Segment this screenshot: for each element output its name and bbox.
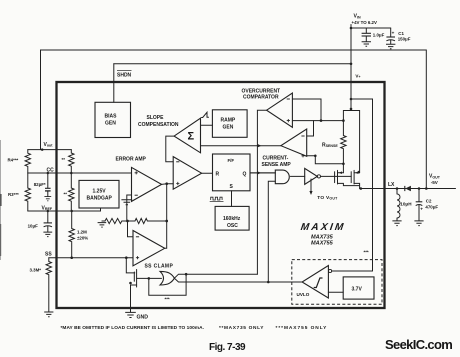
node VIN top: [350, 27, 353, 30]
resistor RSENSE: [322, 111, 346, 173]
svg-text:10μH: 10μH: [400, 201, 412, 206]
svg-text:Q: Q: [243, 171, 247, 177]
label CC: [47, 167, 55, 173]
node OR gate input: [148, 277, 151, 280]
wire LX internal: [360, 188, 397, 190]
wire LX rail outside: [385, 188, 456, 190]
label *** under loop: [165, 297, 170, 302]
resistor R4: [8, 150, 31, 173]
svg-text:MAXIM: MAXIM: [300, 222, 346, 233]
wire VIN vertical: [350, 25, 352, 111]
node SS clamp transistor tap: [125, 256, 128, 259]
svg-text:**: **: [64, 192, 68, 197]
box 1.25V BANDGAP: [79, 180, 119, 208]
ground for 3.3M: [44, 312, 53, 317]
label SS CLAMP: [145, 264, 174, 270]
watermark SeekIC.com: [385, 337, 452, 352]
wire error output down to SS clamp: [165, 184, 167, 249]
wire error amp output: [162, 183, 174, 186]
wire CC rail: [28, 172, 132, 174]
svg-text:82pF*: 82pF*: [34, 182, 46, 187]
wire SHDN to VIN rail: [114, 63, 351, 65]
wire Q output to AND gate: [250, 172, 275, 174]
svg-text:-5V: -5V: [431, 180, 439, 185]
label LX: [388, 182, 395, 188]
ground for C2: [414, 221, 423, 226]
svg-text:470μF: 470μF: [425, 204, 438, 209]
label VOUT -5V: [429, 174, 441, 186]
box BIAS GEN: [95, 102, 131, 137]
node rsense bottom: [342, 163, 345, 166]
wire sigma lower input from current sense: [201, 145, 281, 147]
svg-text:BANDGAP: BANDGAP: [87, 196, 113, 202]
label *** at dashed box: [364, 250, 369, 255]
footnote may be omitted: [61, 325, 205, 331]
node feedback right at error output line: [165, 220, 168, 223]
label CURRENT-SENSE AMP: [262, 156, 292, 169]
svg-text:**: **: [62, 157, 66, 162]
svg-text:**MAX735 ONLY: **MAX735 ONLY: [219, 325, 264, 331]
node Vout rail junction: [41, 148, 44, 151]
wire rsense top rail: [343, 110, 359, 112]
svg-text:COMPENSATION: COMPENSATION: [138, 122, 179, 128]
capacitor 82pF: [34, 173, 51, 196]
capacitor C2 470uF: [416, 189, 439, 221]
svg-text:***: ***: [364, 250, 369, 255]
svg-text:±20%: ±20%: [77, 236, 88, 241]
diode catch: [405, 186, 411, 192]
svg-text:150μF: 150μF: [398, 36, 411, 41]
svg-text:3.7V: 3.7V: [352, 287, 363, 293]
transistor Q1 pass pmos: [335, 170, 360, 185]
node mosfet output: [360, 187, 363, 190]
svg-text:MAX755: MAX755: [311, 241, 334, 247]
capacitor 10uF: [28, 211, 52, 232]
node feedback loop top: [185, 273, 188, 276]
wire VREF rail: [28, 208, 101, 211]
svg-text:SS: SS: [45, 252, 52, 258]
svg-text:Fig. 7-39: Fig. 7-39: [209, 342, 246, 353]
wire VOUT feedback loop outer: [41, 50, 427, 189]
ground GND main: [125, 308, 148, 320]
label OVERCURRENT COMPARATOR: [242, 89, 281, 101]
node C2 tap: [418, 187, 421, 190]
wire feedback loop: [149, 274, 186, 295]
bubble UVLO output: [329, 269, 332, 272]
svg-text:C1: C1: [398, 31, 404, 36]
node rsense top tap: [342, 119, 345, 122]
dashed box MAX755 section: [292, 260, 382, 305]
wire V+ to UVLO branch: [351, 99, 373, 271]
svg-text:LX: LX: [388, 182, 395, 188]
wire Vout rail: [28, 149, 72, 151]
resistor upper ** divider: [62, 150, 75, 173]
arrowhead on Q wire: [257, 171, 261, 174]
svg-text:SHDN: SHDN: [117, 73, 132, 79]
node VOUT junction: [425, 187, 428, 190]
box F/F flip-flop: [213, 154, 251, 191]
svg-text:COMPARATOR: COMPARATOR: [243, 95, 279, 101]
ramp glyph on sigma: [202, 112, 209, 117]
svg-text:GND: GND: [137, 314, 149, 320]
resistor lower ** divider: [64, 173, 75, 211]
IC boundary MAX735: [57, 82, 385, 308]
node cs plus: [314, 155, 317, 158]
wire SHDN pin vertical: [113, 64, 115, 103]
node UVLO to AND junction: [267, 281, 270, 284]
node LX inductor tap: [396, 187, 399, 190]
wire OR output lower to UVLO: [174, 278, 302, 282]
node feedback mid: [126, 220, 129, 223]
svg-text:10μF: 10μF: [28, 224, 39, 229]
svg-text:+4V TO 6.2V: +4V TO 6.2V: [352, 20, 377, 25]
wire error amp minus to ground: [127, 195, 132, 221]
transistor Q2 pass pmos: [351, 170, 360, 188]
label V+: [355, 74, 360, 80]
box 3.7V: [343, 277, 374, 299]
svg-text:*MAY BE OMITTED IF LOAD CURREN: *MAY BE OMITTED IF LOAD CURRENT IS LIMIT…: [61, 325, 205, 331]
svg-text:GEN: GEN: [223, 125, 234, 131]
svg-text:R: R: [216, 171, 220, 177]
svg-text:3.3M*: 3.3M*: [30, 268, 42, 273]
comparator overcurrent: [267, 93, 293, 127]
wire overcurrent output down: [257, 110, 266, 274]
svg-text:MAX735: MAX735: [311, 234, 334, 240]
svg-text:GEN: GEN: [105, 121, 116, 127]
svg-text:1.0μF: 1.0μF: [373, 32, 385, 37]
AND gate: [275, 170, 289, 184]
svg-text:SS CLAMP: SS CLAMP: [145, 264, 174, 270]
svg-text:Vout: Vout: [44, 142, 54, 148]
resistor feedback left: [105, 218, 128, 223]
svg-text:RAMP: RAMP: [221, 118, 236, 124]
svg-text:SLOPE: SLOPE: [147, 115, 165, 121]
svg-text:SENSE AMP: SENSE AMP: [262, 162, 292, 168]
svg-text:VOUT: VOUT: [429, 174, 441, 180]
label ERROR AMP: [116, 157, 147, 163]
op-amp current sense: [281, 129, 307, 157]
wire right branch vertical: [359, 111, 361, 173]
node VREF 1.2M tap: [70, 210, 73, 213]
node V+ rsense top: [350, 108, 353, 111]
node VIN/SHDN junction: [350, 63, 353, 66]
node V+ at y99: [350, 98, 353, 101]
svg-text:ERROR AMP: ERROR AMP: [116, 157, 147, 163]
ground error amp: [121, 200, 132, 205]
ground for 10uF: [43, 232, 52, 237]
wire SS rail: [49, 257, 133, 259]
inductor 10uH: [397, 189, 412, 221]
svg-text:SeekIC.com: SeekIC.com: [385, 337, 452, 352]
svg-text:TO VOUT: TO VOUT: [317, 195, 338, 201]
label Vin: [354, 14, 361, 20]
svg-text:R4***: R4***: [8, 158, 19, 163]
resistor feedback right: [128, 218, 167, 223]
ground for 82pF: [44, 197, 51, 201]
svg-text:+: +: [420, 206, 423, 211]
wire AND bottom input from UVLO: [268, 181, 275, 282]
wire gate drive: [321, 175, 352, 177]
node oc minus: [320, 119, 323, 122]
svg-text:BIAS: BIAS: [105, 114, 118, 120]
svg-text:+: +: [392, 31, 395, 36]
label SLOPE COMPENSATION: [138, 115, 179, 128]
box RAMP GEN: [212, 110, 247, 138]
ground feedback resistor left: [98, 221, 107, 227]
wire cs plus input: [307, 156, 344, 164]
wire sigma output to PWM comparator: [166, 136, 174, 162]
svg-text:UVLO: UVLO: [297, 292, 310, 297]
svg-text:CURRENT-: CURRENT-: [263, 156, 289, 162]
svg-text:C2: C2: [426, 199, 432, 204]
wire AND output to buffer: [290, 175, 304, 177]
svg-text:VIN: VIN: [354, 14, 361, 20]
wire OR output upper to comparator line: [174, 274, 257, 278]
transistor SS discharge: [126, 258, 149, 308]
OR gate: [160, 271, 174, 285]
svg-text:R3***: R3***: [8, 192, 19, 197]
wire AND top input: [250, 172, 275, 174]
label Vout left: [44, 142, 54, 148]
clock waveform glyph: [210, 197, 224, 201]
caption Fig. 7-39: [209, 342, 246, 353]
arrowhead at sense line crossing: [258, 144, 262, 147]
resistor 3.3M: [30, 258, 52, 312]
node VREF 10uF tap: [47, 210, 50, 213]
comparator PWM: [173, 157, 201, 190]
node CC divider tap: [70, 172, 73, 175]
svg-text:1.25V: 1.25V: [93, 189, 107, 195]
logo MAXIM: [300, 222, 346, 233]
wire ramp gen to sigma: [201, 124, 213, 126]
label SHDN: [117, 71, 132, 79]
summing amp sigma: [174, 118, 200, 153]
label +4V TO 6.2V: [352, 20, 377, 25]
ground for 1.0uF: [362, 42, 371, 47]
node SS 1.2M: [70, 256, 73, 259]
op-amp error amp: [132, 167, 162, 201]
svg-text:V+: V+: [355, 74, 360, 80]
footnote MAX755 only: [276, 325, 328, 331]
ground for C1: [386, 44, 395, 49]
wire VIN bypass rail: [351, 27, 391, 29]
wire PWM comp to F/F R: [202, 172, 213, 174]
comparator UVLO: [297, 266, 329, 299]
op-amp SS clamp: [133, 231, 165, 266]
resistor 1.2M: [69, 211, 88, 258]
node ss transistor source: [129, 282, 132, 285]
label VREF: [42, 205, 53, 211]
resistor R3: [8, 173, 31, 211]
wire feedback mid down to SS clamp minus: [128, 221, 134, 237]
node CC 82pF tap: [47, 172, 50, 175]
node error amp output: [165, 182, 168, 185]
wire overcurrent minus input: [292, 99, 321, 121]
wire OR inputs stub: [149, 277, 162, 279]
box 160kHz OSC: [215, 206, 249, 230]
wire overcurrent plus input: [292, 120, 343, 122]
buffer driver: [305, 168, 321, 184]
svg-text:OSC: OSC: [227, 223, 238, 229]
footnote MAX735 only: [219, 325, 264, 331]
ground for inductor: [392, 221, 401, 226]
capacitor C1 150uF: [386, 28, 410, 44]
svg-text:Σ: Σ: [188, 131, 195, 143]
svg-text:160kHz: 160kHz: [223, 216, 241, 222]
wire UVLO ref input: [328, 291, 343, 293]
arrow TO VOUT: [309, 179, 338, 201]
wire UVLO output up: [332, 270, 373, 272]
capacitor 1.0uF: [362, 28, 385, 42]
svg-text:***MAX755 ONLY: ***MAX755 ONLY: [276, 325, 328, 331]
label MAX735 MAX755: [311, 234, 334, 246]
wire S input from OSC: [231, 191, 233, 207]
svg-text:***: ***: [165, 297, 170, 302]
svg-text:1.2M: 1.2M: [77, 230, 87, 235]
wire cs minus input: [307, 121, 314, 136]
svg-text:F/F: F/F: [228, 158, 235, 163]
svg-text:RSENSE: RSENSE: [322, 142, 338, 148]
label SS: [45, 252, 52, 258]
